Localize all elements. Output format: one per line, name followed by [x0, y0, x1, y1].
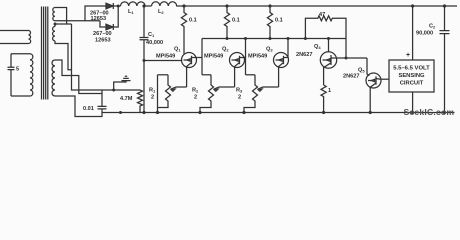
- wire D1 to L1: [113, 5, 120, 7]
- svg-text:40,000: 40,000: [146, 40, 163, 46]
- transistor Q3 MPI549: [274, 53, 289, 88]
- transformer secondary winding S3: [52, 60, 55, 96]
- wire Q5 collector to sensing box: [380, 78, 389, 80]
- node rail pot2 leg: [198, 111, 201, 114]
- svg-text:12653: 12653: [91, 16, 107, 22]
- svg-text:12653: 12653: [95, 38, 111, 44]
- wire Q1 base from C1 node: [144, 60, 182, 62]
- wire primary bottom lead: [11, 95, 30, 97]
- transformer T1 primary upper winding: [29, 31, 31, 44]
- wire AC input line B: [0, 43, 29, 45]
- node RC loop top ground: [112, 89, 115, 92]
- node bus 47 left leg: [304, 37, 307, 40]
- capacitor C2 wire: [444, 6, 446, 30]
- wire Q1 collector riser and pot2 feed: [201, 39, 203, 75]
- wire Q4 base drop: [328, 39, 330, 53]
- inductor L1: [121, 2, 146, 6]
- transistor Q1 MPI549: [182, 53, 198, 88]
- wire top rail: [176, 5, 457, 7]
- node rail sensing box: [411, 111, 414, 114]
- node RC loop bottom: [119, 111, 122, 114]
- svg-text:2: 2: [238, 95, 241, 101]
- svg-text:SeekIC.com: SeekIC.com: [404, 107, 455, 117]
- wire L1 to L2 node: [145, 5, 151, 7]
- svg-text:0.01: 0.01: [83, 106, 94, 112]
- transformer T1 primary lower winding: [30, 54, 33, 96]
- svg-text:Q2: Q2: [222, 47, 229, 53]
- node bus third 0.1: [269, 37, 272, 40]
- wire riser to diode D1: [85, 6, 106, 21]
- svg-text:MPI549: MPI549: [204, 54, 223, 60]
- svg-text:R2: R2: [192, 88, 199, 94]
- svg-text:0.1: 0.1: [275, 18, 283, 24]
- inductor L2: [152, 2, 177, 6]
- wire below capacitor 5: [10, 70, 12, 96]
- node rail R 0.1 third: [268, 4, 271, 7]
- svg-text:L1: L1: [128, 9, 134, 15]
- potentiometer R2: [200, 75, 235, 113]
- node rail pot1 leg: [156, 111, 159, 114]
- node rail R 0.1 second: [225, 4, 228, 7]
- potentiometer R1: [158, 75, 187, 113]
- transformer secondary winding S1: [53, 8, 55, 21]
- capacitor C2: [440, 31, 450, 34]
- capacitor C 5: [8, 67, 15, 69]
- transistor Q5 2N627: [366, 73, 381, 113]
- wire Q2 top drop: [245, 39, 247, 75]
- resistor 0.1 third: [267, 6, 272, 39]
- wire Q5 base drop: [367, 58, 369, 76]
- node rail C1: [142, 111, 145, 114]
- svg-text:5: 5: [16, 67, 19, 73]
- svg-text:0.1: 0.1: [232, 18, 240, 24]
- svg-text:0.1: 0.1: [189, 18, 197, 24]
- svg-text:+: +: [406, 52, 410, 59]
- node bus Q3 riser: [287, 37, 290, 40]
- svg-text:Q3: Q3: [266, 47, 273, 53]
- svg-text:CIRCUIT: CIRCUIT: [400, 81, 424, 87]
- svg-text:2N627: 2N627: [296, 52, 312, 58]
- sensing circuit box: [389, 60, 434, 92]
- svg-text:267–00: 267–00: [93, 31, 112, 37]
- node Q4 collector 47 leg: [345, 57, 348, 60]
- node bus Q2 drop: [244, 37, 247, 40]
- wire S3 top staircase: [55, 60, 102, 94]
- transistor Q4 2N627: [320, 52, 336, 85]
- node rail Q5 emitter: [369, 111, 372, 114]
- wire Q4 collector to Q5 base: [337, 57, 367, 59]
- node D2 riser joins top line: [117, 5, 120, 8]
- diode D1 267-00: [106, 3, 113, 9]
- svg-text:R1: R1: [149, 88, 156, 94]
- wire S1 top lead: [55, 8, 67, 25]
- wire S3 bottom lead: [55, 96, 102, 117]
- wire S2 top tap to diode D2: [55, 21, 106, 27]
- capacitor C1 wire lower to bottom rail: [143, 40, 145, 113]
- diode D2 267-00: [106, 24, 113, 30]
- svg-text:Q1: Q1: [174, 47, 181, 53]
- resistor 47 loop: [305, 16, 346, 58]
- svg-text:90,000: 90,000: [416, 31, 433, 37]
- svg-text:L2: L2: [158, 9, 164, 15]
- transformer core: [42, 7, 48, 100]
- wire S1 bottom lead: [55, 20, 100, 22]
- capacitor C1 wire upper: [143, 6, 145, 37]
- wire D2 output riser: [113, 6, 118, 27]
- wire lower primary top lead: [11, 53, 30, 55]
- node S2 tap: [54, 23, 57, 26]
- wire AC input line A: [0, 30, 29, 32]
- node rail Q4 emitter resistor: [322, 111, 325, 114]
- node rail R 0.1 first: [182, 4, 185, 7]
- capacitor 5 branch wire: [10, 54, 12, 67]
- svg-text:Q4: Q4: [314, 44, 321, 50]
- svg-text:C2: C2: [429, 24, 436, 30]
- wire Q1 collector stub: [198, 57, 202, 59]
- node L1 L2 C1 junction: [142, 4, 145, 7]
- node rail C2: [443, 4, 446, 7]
- wire Q2 collector stub: [244, 57, 246, 59]
- svg-text:1: 1: [328, 88, 331, 94]
- wire bottom rail: [102, 112, 455, 114]
- RC loop 0.01 and 4.7M: [98, 90, 143, 113]
- node C1 base tap: [143, 59, 146, 62]
- potentiometer R3: [244, 75, 279, 113]
- svg-text:MPI549: MPI549: [248, 54, 267, 60]
- capacitor C1: [140, 38, 149, 40]
- wire S2 bottom staircase: [55, 24, 102, 90]
- resistor 1 emitter of Q4: [321, 85, 326, 113]
- svg-text:MPI549: MPI549: [156, 54, 175, 60]
- svg-text:4.7M: 4.7M: [120, 96, 133, 102]
- svg-text:2N627: 2N627: [343, 74, 359, 80]
- wire box top riser: [412, 6, 414, 60]
- transistor Q2 MPI549: [230, 53, 245, 88]
- resistor 0.1 second: [224, 6, 229, 39]
- svg-text:R3: R3: [236, 88, 243, 94]
- wire box bottom drop: [412, 92, 414, 113]
- svg-text:SENSING: SENSING: [398, 73, 425, 79]
- svg-text:C1: C1: [148, 32, 155, 38]
- svg-text:2: 2: [194, 95, 197, 101]
- wire Q3 collector riser: [287, 39, 288, 58]
- svg-text:47: 47: [319, 12, 325, 18]
- wire C2 to bottom rail: [444, 34, 446, 113]
- node rail sensing riser: [411, 4, 414, 7]
- resistor 0.1 first: [181, 6, 186, 54]
- node rail pot3 leg: [242, 111, 245, 114]
- svg-text:2: 2: [151, 95, 154, 101]
- node bus Q4 drop: [327, 37, 330, 40]
- ground: [114, 76, 131, 90]
- wire collector bus: [202, 38, 346, 40]
- node bus second 0.1: [226, 37, 229, 40]
- svg-text:5.5–6.5 VOLT: 5.5–6.5 VOLT: [393, 66, 430, 72]
- transformer secondary winding S2: [53, 27, 55, 41]
